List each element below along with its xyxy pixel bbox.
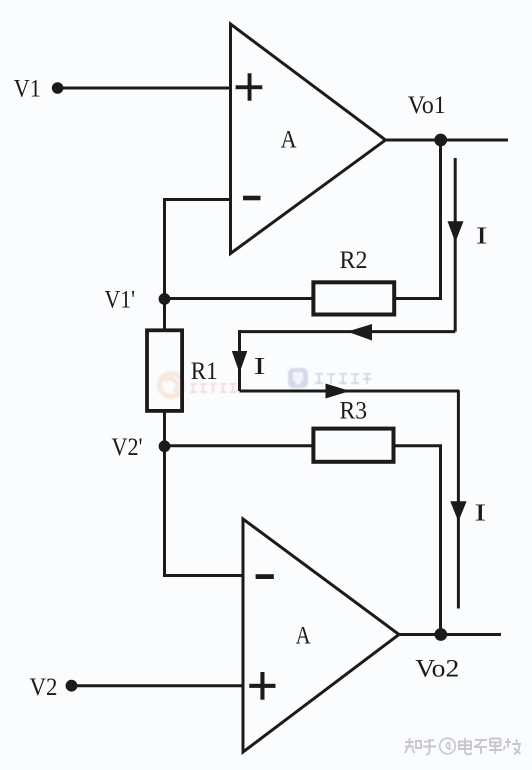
wire U1 output [386, 139, 509, 142]
svg-text:R3: R3 [340, 398, 368, 425]
current arrow line I middle [232, 330, 248, 391]
node V2' [112, 434, 171, 461]
resistor R3 [313, 398, 393, 462]
svg-text:V1': V1' [105, 286, 136, 313]
wire V2' to R3 [165, 444, 314, 447]
current arrow line I bottom [450, 391, 466, 609]
node Vo2 [415, 628, 459, 683]
svg-text:I: I [476, 223, 488, 249]
svg-text:Vo1: Vo1 [408, 92, 446, 119]
op-amp U2 [243, 519, 399, 752]
watermark text pink [190, 384, 237, 393]
current arrow line I top [448, 158, 464, 332]
svg-text:R2: R2 [340, 247, 368, 274]
svg-text:A: A [296, 623, 311, 650]
node V1' [105, 286, 171, 313]
wire U1 minus input to node V1' [165, 200, 231, 300]
node V1 [14, 75, 64, 102]
wire R2 to node Vo1 [395, 140, 441, 299]
resistor R1 [147, 330, 218, 411]
watermark logo blue square [288, 368, 308, 388]
wire V2' to U2 minus input [165, 446, 244, 575]
wire V1 to U1 plus input [58, 87, 231, 90]
node V2 [30, 674, 78, 701]
wire R3 to node Vo2 [394, 446, 441, 635]
resistor R2 [313, 247, 394, 315]
op-amp U1 [231, 24, 386, 254]
watermark zhihu bottom right [405, 738, 521, 755]
wire V2 to U2 plus input [72, 684, 243, 687]
wire V1' to R2 [165, 297, 314, 300]
current arrow wire left [240, 324, 456, 341]
svg-text:I: I [474, 500, 486, 526]
node Vo1 [408, 92, 447, 146]
svg-text:A: A [281, 127, 297, 154]
svg-text:V2: V2 [30, 674, 58, 701]
svg-text:V2': V2' [112, 434, 143, 461]
wire V1' to R1 [163, 299, 166, 330]
watermark text blue [315, 374, 371, 384]
svg-text:V1: V1 [14, 75, 41, 102]
svg-text:I: I [254, 354, 266, 380]
svg-text:R1: R1 [191, 358, 218, 385]
current arrow wire right toward R3 [240, 384, 460, 399]
wire R1 to V2' [163, 411, 166, 446]
watermark logo orange circle [160, 374, 183, 397]
wire U2 output [399, 633, 501, 636]
svg-text:Vo2: Vo2 [415, 656, 459, 683]
